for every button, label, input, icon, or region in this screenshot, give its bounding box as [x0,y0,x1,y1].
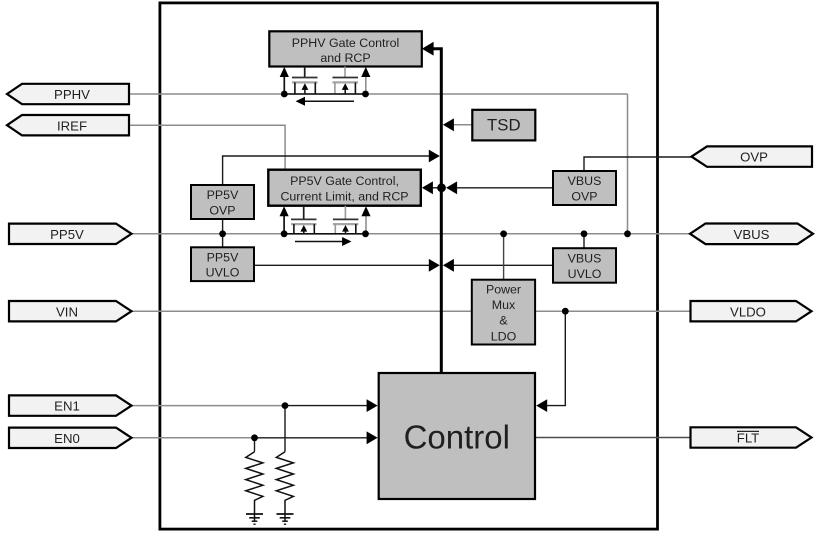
resistor R1 EN0 pulldown [246,452,263,521]
svg-text:OVP: OVP [209,203,235,217]
node VLDO junction [562,308,569,315]
wire TSD to bus [446,124,472,126]
pin IREF [7,115,129,135]
wire VLDO to control [546,311,565,405]
block PP5V Gate Control Current Limit and RCP [268,170,421,206]
node EN0 junction [251,434,258,441]
svg-text:VIN: VIN [56,304,78,319]
wire EN0 to control segment [255,437,369,439]
pin VIN [9,301,132,321]
svg-text:IREF: IREF [57,118,87,133]
wire PPHV-to-VBUS link vertical [627,94,629,234]
wire VLDO rail [535,310,691,312]
svg-text:VBUS: VBUS [568,174,602,188]
node PP5V OVP rail junction [219,230,226,237]
block Control [379,373,535,499]
node VBUS rail to power mux junction [500,230,507,237]
svg-text:PP5V: PP5V [207,188,239,202]
pin OVP [692,146,813,166]
pin VBUS [690,224,813,245]
pin VLDO [691,301,812,321]
pin EN0 [9,428,132,448]
svg-text:Mux: Mux [492,298,516,312]
wire EN0 to resistor R1 [254,438,256,452]
wire PP5V rail [132,233,691,235]
arrow EN1 into control [367,399,378,412]
block PP5V UVLO [191,247,254,281]
resistor R2 EN1 pulldown [276,452,293,521]
wire PP5V OVP to PP5V UVLO [222,219,224,247]
wire IREF net [129,125,285,169]
block VBUS OVP [553,171,616,205]
arrow EN0 into control [367,431,378,444]
transistor Q1B PPHV pass FET right [333,67,359,95]
svg-text:PP5V: PP5V [207,250,239,264]
svg-text:OVP: OVP [571,189,597,203]
arrow VBUS OVP into bus [446,181,457,194]
node PP5V FET left junction [281,230,288,237]
wire VBUS rail to power mux [503,234,505,280]
svg-text:EN1: EN1 [54,399,80,414]
wire FLT [535,437,691,439]
arrow TSD into bus [443,118,454,131]
pin PPHV [7,84,129,104]
arrow bus into PP5V gate control box [422,181,433,194]
svg-text:VLDO: VLDO [730,304,766,319]
node VBUS rail to VBUS UVLO junction [581,230,588,237]
wire VBUS OVP to bus [447,187,553,189]
block Power Mux and LDO [472,280,535,345]
wire EN1 to resistor R2 [284,406,286,452]
wire EN1 to control segment [285,405,368,407]
arrow VBUS UVLO into bus [443,259,454,272]
svg-text:FLT: FLT [737,430,759,445]
block PPHV Gate Control and RCP [269,31,422,66]
svg-text:PP5V: PP5V [50,227,84,242]
wire VIN rail [132,310,473,312]
transistor Q2A PP5V pass FET left [291,206,317,234]
pin FLT [691,427,812,447]
node bus junction at VBUS OVP wire [437,183,446,192]
svg-text:PP5V Gate Control,: PP5V Gate Control, [290,174,399,188]
wire PPHV FET rail segment [284,93,365,95]
svg-text:Control: Control [404,419,510,456]
IC boundary [160,3,658,529]
ground for R1 [246,514,263,524]
wire PP5V right sense arrow [365,215,367,234]
wire EN0 [132,437,255,439]
svg-text:PPHV: PPHV [54,87,90,102]
wire OVP pin to VBUS OVP [584,157,692,171]
wire bus to PP5V gate control stub [432,187,441,189]
wire PP5V left sense arrow [283,215,285,234]
block PP5V OVP [191,185,254,219]
wire PP5V UVLO to bus [254,264,430,266]
wire EN1 [132,405,286,407]
node VBUS rail to PPHV link junction [624,230,631,237]
arrow PPHV RCP direction [296,97,354,106]
arrow bus into PPHV gate control [422,42,434,56]
wire PPHV right sense arrow [365,76,367,94]
wire VBUS rail to VBUS UVLO [583,234,585,248]
ground for R2 [277,514,294,524]
pin EN1 [9,395,132,415]
node PPHV FET left junction [281,91,288,98]
node PP5V FET right junction [362,230,369,237]
block TSD [472,110,535,141]
wire PP5V OVP to bus [223,156,430,185]
bus main control trunk [433,49,441,373]
svg-text:LDO: LDO [491,329,517,343]
wire PPHV rail [129,93,628,95]
svg-text:VBUS: VBUS [734,227,770,242]
transistor Q1A PPHV pass FET left [292,67,318,95]
svg-text:Current Limit, and RCP: Current Limit, and RCP [280,189,408,203]
arrow PP5V RCP direction [295,237,352,246]
wire PPHV left sense arrow [283,76,285,94]
arrow VLDO net into control [536,399,547,412]
wire VBUS UVLO to bus [447,264,553,266]
svg-text:Power: Power [486,283,521,297]
svg-text:TSD: TSD [487,116,521,135]
svg-text:UVLO: UVLO [206,266,240,280]
pin PP5V [9,224,132,244]
wire PP5V FET rail segment [284,233,365,235]
block VBUS UVLO [553,248,616,283]
svg-text:VBUS: VBUS [568,252,602,266]
arrow PP5V OVP into bus [429,150,440,163]
arrow PP5V UVLO into bus [429,259,440,272]
node EN1 junction [282,402,289,409]
svg-text:UVLO: UVLO [568,267,602,281]
node PPHV FET right junction [362,91,369,98]
svg-text:OVP: OVP [740,150,768,165]
svg-text:and RCP: and RCP [320,51,370,65]
transistor Q2B PP5V pass FET right [333,206,359,234]
svg-text:&: & [499,314,508,328]
svg-text:EN0: EN0 [54,431,80,446]
svg-text:PPHV Gate Control: PPHV Gate Control [292,36,399,50]
